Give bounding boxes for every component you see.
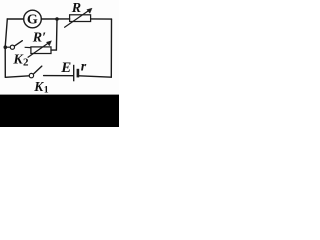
label K1 bbox=[33, 79, 49, 95]
node junction dot (left wire) bbox=[4, 45, 8, 49]
svg-text:K: K bbox=[33, 79, 44, 94]
rheostat R' arrow bbox=[28, 41, 51, 57]
wire top-middle (galvanometer to R, through node) bbox=[41, 18, 69, 20]
wire bottom-middle (battery to switch K1) bbox=[44, 75, 73, 77]
battery E,r positive plate (long thin) bbox=[73, 65, 75, 82]
svg-text:1: 1 bbox=[44, 85, 49, 96]
wire lever to R' box bbox=[25, 46, 31, 48]
wire bottom-left (switch K1 to corner) bbox=[5, 76, 29, 78]
switch K1 contact circle bbox=[29, 73, 33, 77]
svg-text:2: 2 bbox=[23, 57, 29, 69]
node junction dot (top) bbox=[55, 17, 59, 21]
resistor R' (rheostat box) bbox=[31, 47, 51, 54]
svg-text:R′: R′ bbox=[32, 31, 46, 46]
rheostat R arrow bbox=[65, 8, 92, 27]
switch K1 lever bbox=[34, 66, 42, 74]
wire right vertical bbox=[110, 19, 112, 77]
svg-text:E: E bbox=[60, 60, 71, 76]
resistor R (rheostat box) bbox=[70, 15, 91, 22]
svg-text:r: r bbox=[81, 60, 87, 75]
battery E,r negative plate (short thick) bbox=[77, 69, 80, 78]
wire branch vertical (node down to R' right side) bbox=[51, 19, 57, 50]
switch K2 lever bbox=[15, 41, 23, 46]
svg-text:G: G bbox=[27, 13, 38, 28]
galvanometer G bbox=[24, 10, 42, 28]
svg-text:R: R bbox=[71, 1, 81, 16]
label K2 bbox=[12, 53, 29, 69]
wire left vertical bbox=[5, 19, 7, 77]
wire stub to switch K2 bbox=[5, 46, 10, 48]
wire top-right (R to corner) bbox=[91, 18, 112, 20]
switch K2 contact circle bbox=[10, 45, 14, 49]
wire top-left (corner to galvanometer) bbox=[7, 18, 24, 20]
wire bottom-right (corner to battery) bbox=[79, 76, 111, 77]
black censor band (bottom) bbox=[0, 95, 119, 127]
